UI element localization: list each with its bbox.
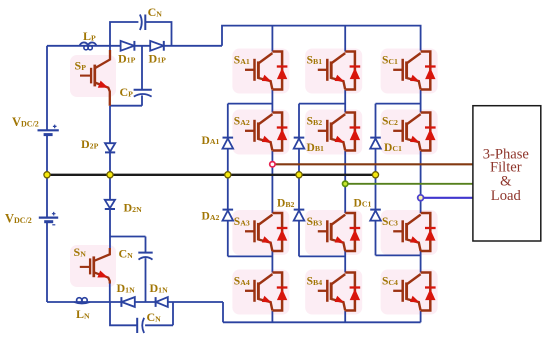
transistor SA3 (IGBT with antiparallel diode) xyxy=(245,213,287,251)
diode DC1 xyxy=(370,138,381,149)
transistor SA4 (IGBT with antiparallel diode) xyxy=(245,273,287,311)
svg-text:SC3: SC3 xyxy=(382,216,398,228)
svg-text:DC1: DC1 xyxy=(384,142,402,154)
svg-text:DB1: DB1 xyxy=(307,142,325,154)
wire top rail of switch matrix xyxy=(222,26,421,51)
transistor SC2 (IGBT with antiparallel diode) xyxy=(393,113,435,151)
svg-text:&: & xyxy=(500,174,512,190)
wire column C row4 to bottom rail xyxy=(420,311,422,322)
svg-text:DA1: DA1 xyxy=(202,135,220,147)
wire column A row4 to bottom rail xyxy=(271,311,273,322)
node junction bus DB column xyxy=(296,172,302,178)
wire Sp emitter to D2P column xyxy=(109,106,111,175)
wire branch SC1/SC2 midpoint to DC1 xyxy=(376,103,421,105)
svg-text:SA4: SA4 xyxy=(234,276,250,288)
svg-text:SB4: SB4 xyxy=(307,276,323,288)
node phase B tap xyxy=(343,181,348,186)
svg-text:DC1: DC1 xyxy=(354,197,372,209)
node junction bus x=110 xyxy=(107,172,113,178)
wire column C between row1 and row2 xyxy=(420,90,422,113)
wire left rail x=47 below lower battery xyxy=(46,222,48,302)
wire column B row4 to bottom rail xyxy=(344,311,346,322)
transistor SB4 (IGBT with antiparallel diode) xyxy=(318,273,360,311)
diode DA1 xyxy=(223,138,234,149)
wire phase C output line xyxy=(421,197,473,199)
wire column B between row2 and row3 (through phase tap) xyxy=(344,151,346,213)
svg-text:SC4: SC4 xyxy=(382,276,398,288)
wire left rail x=47 bus to lower battery xyxy=(46,175,48,218)
svg-text:SA2: SA2 xyxy=(234,116,250,128)
transistor SA1 (IGBT with antiparallel diode) xyxy=(245,52,287,90)
battery VDC/2 lower xyxy=(39,212,58,225)
svg-text:SA1: SA1 xyxy=(234,55,250,67)
svg-text:DB2: DB2 xyxy=(277,197,295,209)
diode D1P second xyxy=(150,41,164,51)
capacitor CP xyxy=(134,90,152,97)
diode D1N second xyxy=(156,297,168,307)
wire phase B output line xyxy=(345,183,473,185)
wire left rail x=47 top (above battery) xyxy=(46,46,48,131)
wire column A between row1 and row2 xyxy=(271,90,273,113)
node junction bus x=47 xyxy=(44,172,50,178)
node phase A tap xyxy=(270,162,275,167)
transistor SA2 (IGBT with antiparallel diode) xyxy=(245,113,287,151)
diode D2P xyxy=(105,143,115,152)
battery VDC/2 upper xyxy=(38,125,59,135)
transistor SB3 (IGBT with antiparallel diode) xyxy=(318,213,360,251)
transistor SC4 (IGBT with antiparallel diode) xyxy=(393,273,435,311)
wire matrix bottom rail xyxy=(223,321,421,323)
wire jog down to matrix bottom rail xyxy=(222,302,224,322)
svg-text:DA2: DA2 xyxy=(202,211,220,223)
svg-text:SB2: SB2 xyxy=(307,116,323,128)
svg-text:SC1: SC1 xyxy=(382,55,398,67)
wire branch DA2 to SA3/SA4 midpoint xyxy=(228,255,273,257)
diode D1P first (boost diode) xyxy=(121,41,135,51)
wire top-left horizontal rail from Vdc+ through Lp to D1P chain xyxy=(47,45,222,47)
node phase C tap xyxy=(418,195,424,201)
wire Cp column from D1P junction xyxy=(110,46,142,106)
wire column A between row2 and row3 (through phase tap) xyxy=(271,151,273,213)
wire DB diode column xyxy=(298,104,300,257)
svg-text:SA3: SA3 xyxy=(234,216,250,228)
diode DA2 xyxy=(223,210,234,221)
wire Sn collector riser xyxy=(109,237,111,249)
node junction bus DC column xyxy=(372,172,378,178)
decorative halo tint (not labelled) xyxy=(232,49,289,94)
transistor SC3 (IGBT with antiparallel diode) xyxy=(393,213,435,251)
capacitor CN (mid, across Sn) xyxy=(138,253,152,260)
wire column B between row1 and row2 xyxy=(344,90,346,113)
svg-text:SC2: SC2 xyxy=(382,116,398,128)
transistor SP (boost switch, upper) xyxy=(80,50,110,106)
wire branch SB1/SB2 midpoint to DB1 xyxy=(299,103,345,105)
wire Cn top bypass loop xyxy=(110,22,172,46)
capacitor CN (top bypass) xyxy=(140,15,145,31)
wire column C between row2 and row3 (through phase tap) xyxy=(420,151,422,213)
svg-text:SB3: SB3 xyxy=(307,216,323,228)
node/bus: middle DC neutral bus (black) xyxy=(47,174,376,176)
diode DC2 (labelled DC1 in schematic) xyxy=(370,210,381,221)
wire Sp collector drop from top rail xyxy=(109,46,111,51)
wire bottom-left horizontal through Ln and D1N chain xyxy=(47,301,223,303)
wire branch DB2 to SB3/SB4 midpoint xyxy=(299,255,345,257)
transistor SB2 (IGBT with antiparallel diode) xyxy=(318,113,360,151)
svg-text:Load: Load xyxy=(491,188,522,204)
wire column C between row3 and row4 xyxy=(420,251,422,273)
node junction bus DA column xyxy=(225,172,231,178)
diode D2N xyxy=(105,200,115,209)
wire top drop to SB1 xyxy=(344,26,346,52)
wire Cn mid column xyxy=(110,237,146,303)
diode DB2 xyxy=(294,210,305,221)
inductor LP xyxy=(80,42,96,49)
wire column A between row3 and row4 xyxy=(271,251,273,273)
wire DA diode column xyxy=(227,104,229,257)
svg-text:SB1: SB1 xyxy=(307,55,323,67)
wire branch SA1/SA2 midpoint to DA1 xyxy=(228,103,273,105)
diode DB1 xyxy=(294,138,305,149)
transistor SC1 (IGBT with antiparallel diode) xyxy=(393,52,435,90)
wire column B between row3 and row4 xyxy=(344,251,346,273)
wire phase A output line xyxy=(272,163,473,165)
wire Sn emitter down to bottom wire xyxy=(109,283,111,302)
transistor SB1 (IGBT with antiparallel diode) xyxy=(318,52,360,90)
wire branch DC2 to SC3/SC4 midpoint xyxy=(376,254,421,256)
wire top drop to SA1 xyxy=(271,26,273,52)
wire Cn bottom bypass loop xyxy=(110,302,173,325)
transistor SN (boost switch, lower) xyxy=(80,248,110,284)
wire D2N column from bus to Sn collector xyxy=(109,175,111,237)
3-phase filter and load block xyxy=(473,106,541,241)
capacitor CN (bottom bypass) xyxy=(137,318,144,333)
wire DC diode column xyxy=(375,104,377,256)
wire left rail x=47 between battery and mid bus xyxy=(46,135,48,175)
inductor LN xyxy=(74,298,90,304)
diode D1N first xyxy=(121,297,134,307)
